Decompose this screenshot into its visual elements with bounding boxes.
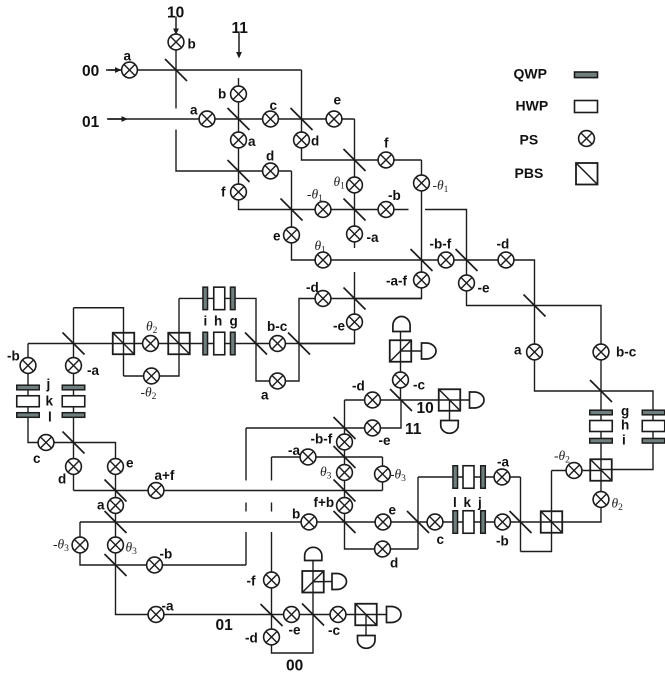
svg-text:a: a (97, 498, 105, 513)
svg-text:b: b (292, 507, 300, 522)
wire pbs1 bottom loop -theta2 (124, 298, 180, 376)
svg-text:e: e (273, 229, 281, 244)
wire x=246 up segment1 (245, 532, 247, 565)
svg-text:a: a (514, 343, 522, 358)
svg-text:j: j (46, 377, 51, 392)
QWP left col1 top (17, 385, 40, 390)
svg-text:10: 10 (167, 5, 184, 22)
PBS7 right cluster lower (541, 511, 563, 533)
QWP row522 c (481, 511, 486, 534)
wire -theta2 row into pbs (552, 470, 602, 472)
wire a loop below row343 (256, 344, 299, 382)
PS -b row522 (495, 514, 511, 530)
svg-text:-e: -e (478, 281, 490, 296)
wire cluster1 pbs right det (401, 350, 422, 352)
svg-text:-e: -e (379, 433, 391, 448)
wire input 00 row y=70 (106, 69, 302, 71)
wire x=421.5 from row160 down (355, 160, 422, 299)
PBS3 cluster1 upper (390, 340, 412, 362)
PS -e x466 (459, 275, 475, 291)
wire row y=428 (246, 400, 401, 428)
PS f x238 (231, 184, 247, 200)
PS -b row565 (147, 557, 163, 573)
PS -c bottom row (330, 607, 346, 623)
BS5 row160 (344, 149, 366, 171)
BS19 row565 x115 (105, 554, 127, 576)
PS a x534 (527, 344, 543, 360)
wire x=534.5 down to row 391 (535, 306, 654, 470)
svg-text:-d: -d (497, 237, 510, 252)
PS b-c left cluster (270, 336, 286, 352)
PS a 00 input (122, 62, 138, 78)
PS e 01 row (326, 111, 342, 127)
svg-text:f: f (221, 185, 226, 200)
wire left cluster top loop (74, 308, 124, 376)
svg-text:PS: PS (520, 132, 539, 148)
PS theta3 x344 (337, 465, 353, 481)
PBS6 cluster2 lower (355, 604, 377, 626)
legend PS symbol (579, 131, 595, 147)
svg-text:e: e (389, 503, 397, 518)
PS b 11 input (231, 86, 247, 102)
PS d x73 low (66, 459, 82, 475)
wire x=520.5 through BS (520, 477, 522, 552)
svg-text:j: j (477, 495, 482, 510)
svg-text:d: d (266, 149, 274, 164)
svg-text:a: a (124, 49, 132, 64)
wire x=344.5 mid column (345, 428, 419, 549)
wire x=246 top segment (245, 428, 247, 481)
detector cluster1 right (422, 343, 437, 359)
PS -theta2 left (144, 368, 160, 384)
HWP left col2 mid (62, 396, 85, 407)
wire x=271.5 seg2 (271, 503, 273, 512)
svg-text:k: k (46, 394, 54, 409)
PBS8 right cluster upper (590, 459, 612, 481)
PS theta2 right (593, 492, 609, 508)
BS7 row209 mid (344, 199, 366, 221)
svg-text:-b: -b (388, 188, 401, 203)
svg-text:QWP: QWP (514, 66, 547, 82)
BS8 row260 x421 (411, 249, 433, 271)
PS b row522 (301, 514, 317, 530)
svg-text:f+b: f+b (314, 495, 335, 510)
PS -d row400 (365, 392, 381, 408)
wire row 209.5 right after hop (425, 210, 467, 261)
BS20 row428 (334, 417, 356, 439)
PS -d row298 (315, 291, 331, 307)
svg-text:-d: -d (245, 631, 258, 646)
BS22 x344 y457 (334, 446, 356, 468)
wire left cluster upper stack loop (179, 298, 256, 343)
PS -d row260 (498, 252, 514, 268)
PS -b-f x344 (337, 434, 353, 450)
svg-text:01: 01 (82, 114, 100, 131)
svg-text:-f: -f (247, 574, 256, 589)
detector cluster3 right (332, 574, 347, 590)
PS b top input (168, 34, 184, 50)
PS c row442 (38, 435, 54, 451)
PS c row522 (427, 514, 443, 530)
PS -e row428 (365, 420, 381, 436)
BS26 x520 y522 (510, 511, 532, 533)
svg-text:h: h (621, 418, 629, 433)
svg-text:-b: -b (7, 349, 20, 364)
BS1 top-left (165, 59, 187, 81)
wire bottom U arm 00 (272, 561, 314, 654)
QWP g right col1 (590, 410, 613, 415)
PS -e x354 low (347, 314, 363, 330)
PS e x291 (284, 227, 300, 243)
BS11 row305 (524, 295, 546, 317)
wire x=299 up to row 298.5 (299, 299, 422, 344)
PS -theta1 x421 (414, 175, 430, 191)
PS e x115 (108, 459, 124, 475)
QWP row477 a (453, 466, 458, 489)
BS4 row171 (228, 160, 250, 182)
svg-text:e: e (334, 93, 342, 108)
PS -b-f row260 (438, 252, 454, 268)
detector dome cluster1 top (393, 316, 410, 331)
wire 00 row corner down x=301.5 (302, 70, 422, 160)
svg-text:c: c (437, 532, 445, 547)
QWP row477 c (481, 466, 486, 489)
wire x=115.5 down theta3 (116, 522, 387, 615)
wire pbs3 right det (313, 581, 332, 583)
svg-text:a: a (190, 103, 198, 118)
svg-text:-d: -d (306, 280, 319, 295)
svg-text:00: 00 (286, 658, 303, 675)
svg-text:-a: -a (367, 230, 379, 245)
PS c 01 row (263, 111, 279, 127)
detector cluster4 right (387, 607, 402, 623)
svg-text:-a: -a (162, 599, 174, 614)
svg-text:00: 00 (82, 63, 99, 80)
BS23 x344 y490 (334, 480, 356, 502)
svg-text:-c: -c (413, 378, 425, 393)
PS -a bottom row (148, 607, 164, 623)
PS a x115 (108, 498, 124, 514)
wire row y=400 (345, 399, 470, 401)
svg-text:-b: -b (160, 547, 173, 562)
svg-text:l: l (48, 410, 52, 425)
BS14 left cluster mid (245, 333, 267, 355)
svg-text:a: a (261, 388, 269, 403)
wire row 209.5 mid (292, 209, 409, 211)
BS28 bottom row x313 (302, 604, 324, 626)
svg-text:c: c (33, 451, 41, 466)
BS10 row298 (344, 288, 366, 310)
svg-text:-a-f: -a-f (386, 274, 407, 289)
detector cluster2 below (441, 421, 459, 434)
QWP row522 a (453, 511, 458, 534)
QWP upper loop c (230, 287, 235, 310)
svg-text:b: b (188, 37, 196, 52)
svg-text:d: d (58, 472, 66, 487)
PS d row549 (375, 541, 391, 557)
wire x=291.5 down to row 260 (292, 171, 535, 306)
PS a+f row490 (148, 483, 164, 499)
wire -a row y=477 (418, 476, 521, 478)
wire left col x=73.5 (73, 308, 75, 491)
BS9 row260 x466 (456, 249, 478, 271)
BS17 row490 x115 (105, 480, 127, 502)
svg-text:11: 11 (405, 421, 422, 438)
PS a 01 input (199, 111, 215, 127)
wire -theta3 right loop (382, 457, 384, 491)
input arrow 00 (109, 67, 122, 73)
svg-text:g: g (621, 404, 629, 419)
PBS5 cluster2 upper (302, 571, 324, 593)
input arrow 10 (173, 17, 179, 36)
PS f+b x344 (337, 498, 353, 514)
wire main row y=522 left part (80, 521, 562, 523)
svg-text:-a: -a (87, 363, 99, 378)
svg-text:i: i (622, 433, 626, 448)
wire x=344.5 row400 link (344, 400, 346, 428)
svg-text:f: f (384, 136, 389, 151)
PS -a row477 (494, 469, 510, 485)
QWP i left cluster (203, 332, 208, 355)
wire input 01 row y=119 (107, 118, 355, 120)
wire cluster1 dome stem through PBS (400, 332, 402, 401)
svg-text:HWP: HWP (516, 98, 549, 114)
wire cluster2 pbs down det (449, 400, 451, 421)
PS b-c x601 (593, 344, 609, 360)
svg-text:l: l (453, 495, 457, 510)
detector cluster2 right (470, 392, 485, 408)
svg-text:-d: -d (352, 379, 365, 394)
PS -e bottom row (284, 607, 300, 623)
svg-text:-a: -a (288, 443, 300, 458)
svg-text:10: 10 (417, 400, 434, 417)
detector cluster4 below (358, 636, 376, 649)
svg-text:b-c: b-c (267, 319, 288, 334)
svg-text:-b-f: -b-f (311, 432, 333, 447)
BS13 left cluster entry (63, 333, 85, 355)
BS27 bottom row x271 (261, 604, 283, 626)
wire input 11 vertical x=238.5 (239, 78, 292, 210)
PS theta1 x354 (347, 177, 363, 193)
wire left cluster row y=343.5 (28, 343, 355, 345)
wire x=551.5 loop down through PBS (521, 471, 552, 552)
PS -theta3 x382 (375, 466, 391, 482)
legend HWP symbol (575, 101, 598, 113)
wire x=418 column (417, 477, 419, 549)
svg-text:d: d (311, 134, 319, 149)
wire x=246 mid segment (245, 503, 247, 512)
QWP upper loop a (203, 287, 208, 310)
BS16 left col bottom (63, 432, 85, 454)
HWP upper loop b (214, 287, 225, 310)
PS -a x354 (347, 226, 363, 242)
legend PBS symbol (576, 163, 598, 185)
PS f row160 (378, 152, 394, 168)
wire row -a y=457 (272, 456, 383, 458)
HWP row522 b (463, 511, 474, 534)
PBS4 cluster1 lower (439, 389, 461, 411)
PS -theta2 right (566, 463, 582, 479)
QWP left col1 bot (17, 413, 40, 418)
BS18 row522 x115 (105, 511, 127, 533)
PS a x238 (231, 132, 247, 148)
HWP right col2 mid (642, 421, 665, 432)
PS theta2 left (143, 336, 159, 352)
PBS2 left cluster (168, 333, 190, 355)
svg-text:e: e (126, 456, 134, 471)
svg-text:-c: -c (328, 623, 340, 638)
wire x=176 below BS upper (175, 70, 177, 109)
input arrow 01 (109, 116, 129, 122)
PS d row171 (263, 163, 279, 179)
wire left -b column (28, 344, 116, 523)
svg-text:b: b (218, 87, 226, 102)
wire x=271.5 seg1 (271, 457, 273, 481)
legend QWP symbol (575, 72, 598, 78)
svg-text:01: 01 (216, 617, 234, 634)
svg-text:-b-f: -b-f (430, 237, 452, 252)
HWP row477 b (463, 466, 474, 489)
wire x=601 stack column through PBS (562, 391, 601, 522)
wire x=354.5 lower after hop (299, 272, 355, 344)
wire x=176 below hop to row 171 (176, 130, 292, 172)
PS -d x271 low (264, 629, 280, 645)
QWP i right col1 (590, 438, 613, 443)
PS theta1 row260 (315, 252, 331, 268)
PS -a row457 (300, 449, 316, 465)
svg-text:-e: -e (289, 623, 301, 638)
BS15 left cluster right (288, 333, 310, 355)
wire x=271.5 seg3 (271, 532, 273, 615)
svg-text:g: g (230, 314, 238, 329)
PS -b left col (20, 358, 36, 374)
wire left drop -theta3 loop (80, 522, 246, 565)
svg-text:a+f: a+f (155, 468, 175, 483)
svg-text:a: a (248, 134, 256, 149)
svg-text:h: h (214, 314, 222, 329)
svg-text:i: i (204, 314, 208, 329)
PS -c x400 (393, 372, 409, 388)
input arrow 11 (236, 33, 242, 59)
wire 01 corner down x=354.5 upper (354, 119, 356, 248)
PS a loop left cluster (270, 373, 286, 389)
BS3 01xV301 (291, 108, 313, 130)
svg-text:c: c (270, 98, 278, 113)
svg-text:PBS: PBS (515, 165, 544, 181)
PS -theta3 x80 (72, 537, 88, 553)
svg-text:11: 11 (232, 20, 249, 37)
svg-text:b-c: b-c (616, 345, 637, 360)
BS24 x344 y522 (334, 511, 356, 533)
PS e row522 (375, 514, 391, 530)
BS6 row209 left (281, 199, 303, 221)
HWP h left cluster (214, 332, 225, 355)
wire pbs4 down det (365, 615, 367, 636)
BS12 right cluster (590, 380, 612, 402)
PS -b row209 (378, 202, 394, 218)
HWP left col1 mid (17, 396, 40, 407)
PS -f x271 (264, 572, 280, 588)
BS25 x418 y522 (407, 511, 429, 533)
QWP left col2 bot (62, 413, 85, 418)
detector dome cluster3 top (305, 547, 322, 560)
QWP left col2 top (62, 385, 85, 390)
PS -a left col2 (66, 358, 82, 374)
PS theta3 x115 (108, 537, 124, 553)
PS d x301 (294, 132, 310, 148)
BS2 01xV238 (228, 108, 250, 130)
wire input 10 vertical x=176 (175, 36, 177, 70)
wire row y=490.5 (74, 490, 383, 492)
HWP h right col1 (590, 421, 613, 432)
svg-text:-a: -a (497, 455, 509, 470)
QWP g left cluster (230, 332, 235, 355)
BS21 row400 (390, 389, 412, 411)
svg-text:-e: -e (333, 319, 345, 334)
QWP right col2 bot (642, 438, 665, 443)
wire x=466.5 down to row 305.5 (467, 260, 602, 391)
PBS1 left cluster (113, 333, 135, 355)
PS -a-f x421 (414, 272, 430, 288)
PS -theta1 row209 (315, 202, 331, 218)
QWP right col2 top (642, 410, 665, 415)
svg-text:d: d (390, 556, 398, 571)
svg-text:-b: -b (496, 534, 509, 549)
svg-text:k: k (464, 495, 472, 510)
